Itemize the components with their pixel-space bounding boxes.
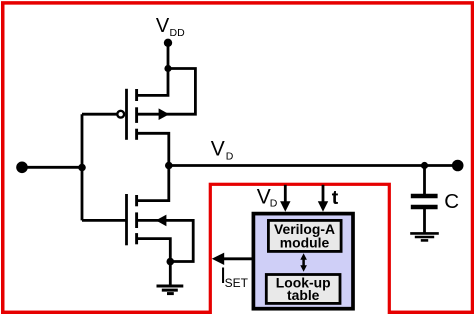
wire NMOS body to source with arrow: [137, 215, 194, 262]
node capacitor junction: [421, 162, 428, 169]
wire PMOS drain to VDD: [137, 69, 168, 96]
input terminal dot: [16, 162, 28, 174]
capacitor C: [411, 196, 438, 207]
label VD: [211, 138, 234, 163]
Verilog-A block outer box: [253, 214, 353, 309]
red highlight box around Verilog-A block: [210, 184, 389, 314]
transistor M1 (PMOS): [117, 89, 136, 140]
wire capacitor to ground: [423, 208, 426, 234]
wire NMOS gate feed: [82, 219, 127, 222]
wire PMOS source to VD node: [137, 133, 169, 165]
arrow t into block: [318, 185, 328, 212]
svg-text:table: table: [287, 287, 320, 303]
node input junction: [78, 164, 86, 172]
Verilog-A module box: [268, 220, 341, 251]
node source junction: [167, 258, 175, 266]
wire VDD stem: [167, 43, 170, 69]
VD terminal dot: [452, 160, 464, 172]
svg-text:module: module: [280, 235, 330, 251]
arrow ISET out of block: [212, 253, 252, 265]
wire gate riser vertical: [81, 114, 84, 220]
svg-text:V: V: [211, 138, 225, 161]
wire to ground: [169, 262, 172, 287]
node VDD junction: [164, 65, 171, 72]
svg-text:D: D: [226, 150, 234, 162]
ground: [157, 286, 184, 294]
wire VD horizontal: [169, 164, 458, 167]
node VD junction: [165, 162, 173, 170]
svg-text:t: t: [332, 187, 339, 209]
label VD input to block: [257, 185, 278, 209]
wire to capacitor: [423, 166, 426, 196]
arrow VD into block: [280, 185, 290, 212]
wire PMOS body to VDD with arrow: [137, 69, 196, 121]
ground: [410, 233, 439, 240]
svg-text:C: C: [444, 190, 459, 213]
wire NMOS drain to VD node: [137, 166, 169, 201]
label ISET: [220, 263, 249, 290]
label VDD: [156, 15, 185, 39]
wire to PMOS gate bubble: [82, 113, 117, 116]
svg-text:DD: DD: [170, 27, 186, 39]
double-headed arrow between boxes: [300, 253, 307, 271]
Look-up table box: [266, 275, 340, 304]
svg-text:V: V: [156, 15, 170, 37]
svg-text:D: D: [270, 198, 278, 210]
VDD terminal dot: [164, 39, 172, 47]
transistor M2 (NMOS): [127, 194, 137, 245]
svg-text:SET: SET: [225, 276, 249, 290]
wire input horizontal: [22, 166, 82, 169]
wire NMOS source down: [137, 239, 171, 262]
